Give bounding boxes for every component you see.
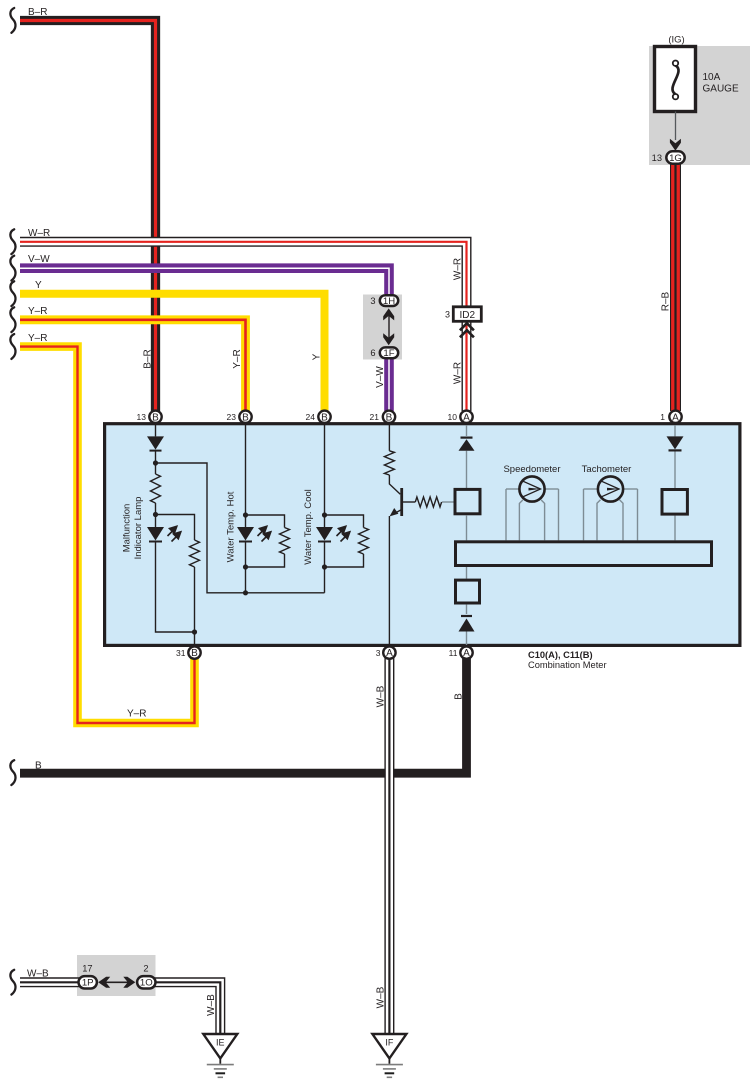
svg-text:1O: 1O <box>140 978 153 989</box>
svg-text:B–R: B–R <box>143 349 154 368</box>
svg-text:V–W: V–W <box>375 366 386 388</box>
svg-text:10A: 10A <box>703 72 721 83</box>
svg-text:ID2: ID2 <box>460 310 476 321</box>
svg-text:B: B <box>35 761 42 772</box>
svg-text:3: 3 <box>445 309 450 319</box>
svg-text:Tachometer: Tachometer <box>582 464 632 475</box>
svg-text:B: B <box>321 412 328 423</box>
svg-text:Y: Y <box>35 280 42 291</box>
svg-text:Malfunction: Malfunction <box>122 504 133 553</box>
svg-text:V–W: V–W <box>28 254 50 265</box>
svg-text:A: A <box>672 412 679 423</box>
svg-text:Water Temp. Cool: Water Temp. Cool <box>303 489 314 565</box>
svg-text:GAUGE: GAUGE <box>703 84 739 95</box>
svg-text:A: A <box>386 648 393 659</box>
svg-text:Y: Y <box>312 353 323 360</box>
svg-text:21: 21 <box>370 412 380 422</box>
svg-text:W–B: W–B <box>376 685 387 707</box>
svg-text:11: 11 <box>449 648 458 658</box>
svg-text:W–B: W–B <box>27 969 49 980</box>
svg-text:A: A <box>463 412 470 423</box>
svg-text:3: 3 <box>376 648 381 658</box>
svg-text:Combination Meter: Combination Meter <box>528 660 607 670</box>
svg-text:13: 13 <box>652 153 662 163</box>
svg-text:2: 2 <box>143 963 148 973</box>
svg-text:B: B <box>191 648 198 659</box>
svg-text:6: 6 <box>370 348 375 358</box>
svg-text:24: 24 <box>306 412 316 422</box>
svg-text:17: 17 <box>82 963 92 973</box>
svg-text:10: 10 <box>448 412 458 422</box>
svg-text:(IG): (IG) <box>668 35 684 46</box>
svg-text:Y–R: Y–R <box>232 349 243 368</box>
svg-text:W–R: W–R <box>453 258 464 280</box>
svg-text:B–R: B–R <box>28 7 47 18</box>
svg-text:Water Temp. Hot: Water Temp. Hot <box>226 491 237 562</box>
svg-text:Y–R: Y–R <box>127 709 146 720</box>
svg-text:Speedometer: Speedometer <box>503 464 560 475</box>
svg-text:Indicator Lamp: Indicator Lamp <box>133 497 144 560</box>
svg-text:1P: 1P <box>82 978 94 989</box>
svg-text:W–B: W–B <box>376 986 387 1008</box>
svg-text:Y–R: Y–R <box>28 333 47 344</box>
svg-text:C10(A), C11(B): C10(A), C11(B) <box>528 650 593 660</box>
svg-text:B: B <box>454 693 465 700</box>
svg-text:1G: 1G <box>669 153 682 164</box>
svg-text:Y–R: Y–R <box>28 306 47 317</box>
svg-text:W–R: W–R <box>453 362 464 384</box>
svg-text:IF: IF <box>385 1038 394 1048</box>
svg-text:IE: IE <box>216 1038 225 1048</box>
svg-text:B: B <box>386 412 393 423</box>
svg-text:31: 31 <box>176 648 186 658</box>
svg-text:1: 1 <box>660 412 665 422</box>
svg-text:1H: 1H <box>383 296 395 307</box>
svg-text:23: 23 <box>227 412 237 422</box>
svg-text:A: A <box>463 648 470 659</box>
svg-text:B: B <box>242 412 249 423</box>
svg-text:13: 13 <box>137 412 147 422</box>
svg-text:3: 3 <box>370 296 375 306</box>
svg-text:B: B <box>152 412 159 423</box>
svg-text:1F: 1F <box>383 348 394 359</box>
svg-text:W–R: W–R <box>28 228 50 239</box>
svg-text:R–B: R–B <box>661 291 672 311</box>
svg-text:W–B: W–B <box>206 994 217 1016</box>
